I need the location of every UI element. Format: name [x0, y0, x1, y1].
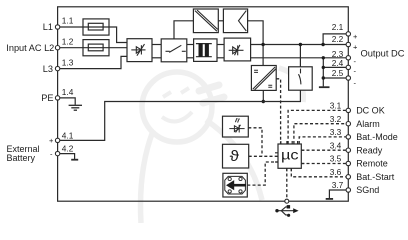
- svg-text:-: -: [354, 78, 357, 87]
- wire 2.5 branch: [323, 77, 346, 79]
- wire L1 to fuse F1: [58, 26, 83, 28]
- svg-text:ϑ: ϑ: [230, 148, 240, 165]
- svg-text:1.4: 1.4: [62, 87, 74, 97]
- wire F1 to rectifier: [109, 27, 127, 43]
- junction 2.4 rail: [322, 66, 325, 69]
- diode D1 box: [224, 38, 251, 61]
- wire battery 4.1 feed: [58, 90, 301, 140]
- svg-text:Input AC L2: Input AC L2: [6, 43, 54, 53]
- fuse F1: [83, 19, 109, 35]
- junction 2.3 rail: [322, 56, 325, 59]
- svg-text:2.4: 2.4: [332, 58, 344, 68]
- svg-text:2.5: 2.5: [332, 68, 344, 78]
- uC pin stubs: [275, 141, 304, 171]
- svg-text:SGnd: SGnd: [356, 185, 379, 195]
- terminal 3.3: [346, 135, 350, 139]
- terminal 2.3: [346, 56, 350, 60]
- common bar under output: [319, 86, 330, 88]
- PFC converter box B1: [193, 9, 218, 33]
- svg-text:1.3: 1.3: [62, 58, 74, 68]
- watermark swoosh arc: [141, 68, 304, 223]
- wire rectifier to switch S1 (bottom rail): [152, 57, 161, 59]
- wire D1 to output + (to 2.2): [251, 44, 347, 46]
- LED indicator box: [223, 116, 249, 137]
- svg-text:+: +: [353, 42, 358, 51]
- S2 contact symbol: [299, 69, 301, 85]
- svg-text:3.3: 3.3: [330, 127, 342, 137]
- dashed LED to uC: [248, 128, 262, 157]
- svg-text:Alarm: Alarm: [356, 119, 380, 129]
- svg-text:2.2: 2.2: [332, 34, 344, 44]
- svg-text:+: +: [353, 32, 358, 41]
- svg-text:Output DC: Output DC: [361, 49, 405, 59]
- junction B2 on + rail: [261, 43, 264, 46]
- device outline: [58, 7, 349, 201]
- earth ground PE: [69, 105, 82, 110]
- svg-text:4.2: 4.2: [62, 144, 74, 154]
- wire negative rail vertical: [322, 58, 324, 87]
- terminal 3.6: [346, 175, 350, 179]
- terminal PE: [55, 96, 59, 100]
- PFC double diagonal: [195, 10, 218, 31]
- terminal 4.2: [55, 151, 59, 155]
- svg-text:+: +: [49, 136, 54, 145]
- microcontroller U3: [278, 144, 301, 168]
- fuse F2: [83, 40, 109, 56]
- svg-text:3.7: 3.7: [332, 180, 344, 190]
- wire 2.1 branch: [323, 34, 346, 45]
- terminal L1: [55, 25, 59, 29]
- wire battery 4.2 stub: [58, 154, 75, 159]
- DC/DC charger box U2: [251, 66, 276, 91]
- dashed 3.1 DC OK line: [288, 110, 346, 144]
- terminal L3: [55, 66, 59, 70]
- svg-text:L1: L1: [43, 22, 53, 32]
- wire L3 to rectifier: [58, 56, 127, 68]
- dashed control DC/DC to uC: [247, 79, 346, 199]
- junction U2/battery rail: [262, 100, 265, 103]
- svg-text:-: -: [50, 149, 53, 158]
- svg-text:3.1: 3.1: [330, 101, 342, 111]
- junction 2.5 rail: [322, 76, 325, 79]
- common bar battery minus: [71, 159, 78, 161]
- dashed 3.3 Bat.-Mode line: [299, 137, 346, 144]
- dashed 3.4 Ready line: [301, 149, 346, 151]
- dashed 3.5 Remote line: [301, 163, 346, 165]
- terminal 3.7: [346, 188, 350, 192]
- dashed 3.6 Bat.-Start line: [291, 168, 346, 177]
- svg-text:L3: L3: [43, 64, 53, 74]
- transformer T1: [194, 39, 217, 62]
- diode D1 symbol: [229, 45, 244, 55]
- wire 2.4 branch: [323, 66, 346, 68]
- svg-text:PE: PE: [41, 93, 53, 103]
- terminal 2.2: [346, 42, 350, 46]
- terminal 4.1: [55, 138, 59, 142]
- svg-text:Bat.-Mode: Bat.-Mode: [356, 132, 398, 142]
- wire S1 to transformer (top rail): [187, 44, 194, 46]
- connector outline: [225, 176, 246, 194]
- wire U2 bottom pin to battery rail: [262, 90, 264, 101]
- wire L2 to fuse F2: [58, 47, 83, 49]
- wire S1 to transformer (bottom rail): [187, 57, 194, 59]
- svg-text:-: -: [354, 57, 357, 66]
- wire SGnd 3.7: [329, 190, 346, 198]
- wire rectifier to switch S1 (top rail): [152, 44, 161, 46]
- svg-text:DC OK: DC OK: [356, 106, 385, 116]
- wire S2 top pin to + rail: [299, 45, 301, 67]
- svg-text:3.5: 3.5: [330, 154, 342, 164]
- wire T1 to diode D1 (bottom rail): [217, 57, 224, 59]
- black arrow left: [226, 180, 246, 190]
- dashed temp sensor to uC: [249, 155, 278, 157]
- wire PE to earth: [58, 98, 76, 105]
- terminal 2.1: [346, 32, 350, 36]
- svg-text:1.1: 1.1: [62, 16, 74, 26]
- wire B1 to B2: [218, 20, 223, 22]
- terminal 3.5: [346, 161, 350, 165]
- svg-text:Battery: Battery: [7, 153, 36, 163]
- USB interface box: [223, 173, 247, 197]
- switch S1 contact symbol: [166, 45, 186, 52]
- svg-text:2.1: 2.1: [332, 22, 344, 32]
- booster box B2: [223, 9, 247, 33]
- svg-text:Remote: Remote: [356, 159, 388, 169]
- terminal 2.5: [346, 76, 350, 80]
- transformer winding symbol: [196, 44, 212, 57]
- dashed USB box to uC: [247, 162, 278, 185]
- terminal 3.4: [346, 148, 350, 152]
- USB trident symbol: [275, 205, 298, 217]
- svg-text:µc: µc: [281, 147, 299, 162]
- svg-text:4.1: 4.1: [62, 131, 74, 141]
- U2 DC marks: [254, 70, 272, 87]
- svg-text:3.6: 3.6: [330, 167, 342, 177]
- battery switch box S2: [289, 67, 313, 90]
- svg-text:-: -: [354, 66, 357, 75]
- svg-text:3.4: 3.4: [330, 140, 342, 150]
- svg-text:1.2: 1.2: [62, 37, 74, 47]
- terminal L2: [55, 46, 59, 50]
- terminal 3.1: [346, 108, 350, 112]
- booster chevron: [239, 11, 247, 31]
- switch S1: [161, 39, 187, 62]
- rectifier diode symbol: [131, 44, 145, 56]
- wire B2 down to + rail: [248, 21, 264, 66]
- junction S2 on + rail: [299, 43, 302, 46]
- terminal USB shield: [285, 199, 289, 203]
- wire T1 to diode D1 (top rail): [217, 44, 224, 46]
- svg-text:Ready: Ready: [356, 145, 383, 155]
- temperature sensor box: [223, 144, 249, 168]
- U2 double diagonal: [253, 67, 276, 90]
- wire F2 to rectifier: [109, 47, 127, 49]
- dashed uC to USB port: [286, 168, 288, 199]
- LED symbol: [229, 118, 244, 133]
- wire D1 to output - (to 2.3): [251, 57, 347, 59]
- terminal 2.4: [346, 65, 350, 69]
- wire top boost branch from S1: [174, 21, 193, 39]
- svg-text:3.2: 3.2: [330, 114, 342, 124]
- common bar SGnd: [326, 198, 333, 200]
- rectifier U1: [127, 39, 152, 62]
- junction 2.1/2.2: [321, 43, 324, 46]
- connector screw holes: [228, 177, 231, 180]
- svg-text:Bat.-Start: Bat.-Start: [356, 172, 395, 182]
- terminal 3.2: [346, 122, 350, 126]
- dashed 3.2 Alarm line: [294, 124, 346, 144]
